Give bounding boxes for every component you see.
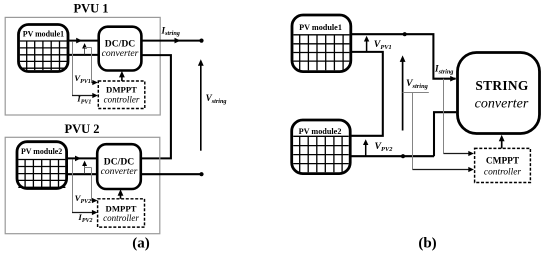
output wire I_string (top) xyxy=(141,40,201,42)
series wire converter1 bottom output down to converter2 xyxy=(141,55,171,158)
wire PV module2 to DC/DC2 (bottom) xyxy=(67,173,98,175)
PVU 2 outer box xyxy=(5,137,160,233)
arrowhead into STRING converter xyxy=(450,76,456,82)
V_string arrow (panel a) xyxy=(200,62,202,151)
PV module1 (panel a) xyxy=(19,25,69,72)
V_PV1 measure arrow xyxy=(84,45,86,54)
V_PV2 arrow (b) xyxy=(365,141,367,155)
svg-text:PV module2: PV module2 xyxy=(21,147,62,156)
arrowhead I_string xyxy=(175,38,181,44)
PV module1 (panel b) xyxy=(292,15,351,72)
V_string sense line to CMPPT xyxy=(403,92,429,94)
V_PV1 tap line to DMPPT xyxy=(85,47,92,49)
DMPPT1 to DC/DC1 arrow xyxy=(121,74,123,81)
svg-text:converter: converter xyxy=(475,97,529,112)
wire PV module2 to DC/DC2 (top) xyxy=(67,157,98,159)
svg-text:controller: controller xyxy=(103,213,139,223)
PV module2 (panel a) xyxy=(17,142,67,189)
svg-text:STRING: STRING xyxy=(475,78,528,93)
node dot (b) top xyxy=(403,32,407,36)
DC/DC converter 1 xyxy=(99,27,142,71)
arrowhead on top wire xyxy=(76,38,82,44)
svg-text:(b): (b) xyxy=(418,236,436,252)
I_PV2 sense line xyxy=(72,160,74,213)
svg-text:PV module2: PV module2 xyxy=(299,127,342,136)
wire PV1b bottom to PV2b top (series) xyxy=(350,52,383,136)
wire string return up to STRING converter xyxy=(434,112,456,156)
V_string arrow (b) xyxy=(402,58,404,131)
svg-text:DMPPT: DMPPT xyxy=(106,204,137,214)
V_PV1 arrow (b) xyxy=(366,38,368,52)
CMPPT controller xyxy=(475,148,531,182)
svg-text:converter: converter xyxy=(101,166,138,177)
svg-text:converter: converter xyxy=(102,48,139,59)
DC/DC converter 2 xyxy=(97,144,141,189)
node dot top terminal xyxy=(199,39,203,43)
DMPPT controller 2 xyxy=(98,199,145,227)
arrowhead xyxy=(75,156,81,162)
V_PV2 measure arrow xyxy=(84,163,86,174)
svg-text:PV module1: PV module1 xyxy=(299,23,342,32)
svg-text:PVU 2: PVU 2 xyxy=(64,122,99,136)
wire PV module1 to DC/DC (top) xyxy=(68,40,99,42)
wire PV1b top to string converter xyxy=(351,34,456,78)
I_string sense line to CMPPT xyxy=(443,79,445,154)
PV module2 (panel b) xyxy=(292,120,351,174)
node dot (b) bottom xyxy=(401,154,405,158)
wire PV module1 to DC/DC (bottom) xyxy=(68,54,99,56)
wire PV2b bottom to string return xyxy=(350,155,434,157)
I_PV1 sense line xyxy=(72,42,74,96)
svg-text:controller: controller xyxy=(484,167,521,177)
DMPPT2 to DC/DC2 arrow xyxy=(120,192,122,199)
output wire converter2 (bottom) to terminal xyxy=(141,173,202,175)
STRING converter xyxy=(458,53,540,134)
CMPPT to STRING converter arrow xyxy=(501,138,503,148)
svg-text:PV module1: PV module1 xyxy=(23,29,64,38)
svg-text:DMPPT: DMPPT xyxy=(106,84,137,94)
svg-text:PVU 1: PVU 1 xyxy=(73,2,108,16)
svg-text:CMPPT: CMPPT xyxy=(486,156,520,166)
svg-text:controller: controller xyxy=(104,95,140,105)
PVU 1 outer box xyxy=(5,17,160,115)
DMPPT controller 1 xyxy=(98,81,145,109)
V_PV2 tap line to DMPPT2 xyxy=(85,167,92,169)
node dot bottom terminal xyxy=(199,172,203,176)
svg-text:(a): (a) xyxy=(132,236,150,252)
